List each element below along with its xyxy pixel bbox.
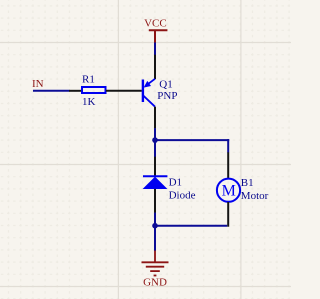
wire node to motor branch <box>155 139 229 141</box>
pin B1 bottom <box>227 202 229 227</box>
pin D1 anode <box>154 189 156 213</box>
wire collector to node and D1 <box>154 128 156 157</box>
svg-text:VCC: VCC <box>144 18 167 30</box>
pin B1 top <box>227 152 229 178</box>
pin R1 right / pin Q1 base <box>106 90 142 92</box>
ground symbol <box>142 251 169 276</box>
svg-text:B1: B1 <box>241 177 254 189</box>
svg-text:M: M <box>222 182 236 199</box>
pin Q1 emitter (pin 1) <box>154 55 156 79</box>
motor B1 circle <box>217 179 240 202</box>
wire IN to R1 <box>33 90 70 92</box>
power port VCC symbol <box>149 30 168 42</box>
svg-text:IN: IN <box>32 78 44 90</box>
resistor R1 body <box>82 87 106 93</box>
svg-text:D1: D1 <box>169 177 182 189</box>
transistor Q1 (PNP) <box>143 79 155 107</box>
wire node to motor bottom <box>155 225 227 227</box>
svg-text:Diode: Diode <box>169 190 196 202</box>
wire D1 to node to GND <box>154 213 156 251</box>
svg-text:1K: 1K <box>82 96 96 108</box>
svg-text:R1: R1 <box>82 73 95 85</box>
pin Q1 collector <box>154 107 156 129</box>
svg-text:GND: GND <box>143 276 167 288</box>
junction node bottom <box>152 223 158 229</box>
diode D1 <box>143 176 168 189</box>
svg-text:PNP: PNP <box>157 90 177 102</box>
wire motor branch vertical <box>227 139 229 152</box>
wire VCC to Q1 emitter <box>154 43 156 56</box>
pin D1 cathode <box>154 157 156 177</box>
svg-text:Motor: Motor <box>241 190 269 202</box>
pin R1 left <box>69 90 82 92</box>
svg-text:Q1: Q1 <box>159 78 172 90</box>
junction node top <box>152 137 158 143</box>
